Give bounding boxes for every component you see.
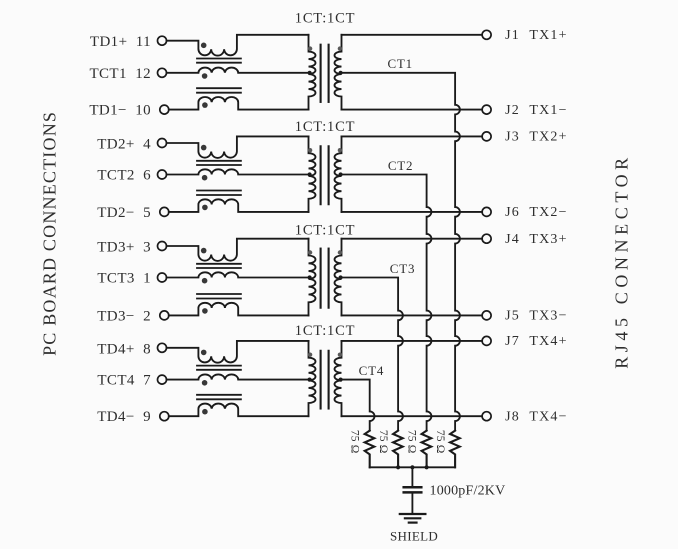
svg-text:RJ45 CONNECTOR: RJ45 CONNECTOR bbox=[612, 153, 632, 369]
svg-text:J6 TX2−: J6 TX2− bbox=[505, 205, 568, 220]
svg-text:75 Ω: 75 Ω bbox=[405, 430, 417, 454]
svg-text:CT4: CT4 bbox=[359, 363, 385, 378]
svg-text:TD3+ 3: TD3+ 3 bbox=[97, 240, 151, 256]
svg-text:75 Ω: 75 Ω bbox=[377, 430, 389, 454]
svg-text:TCT4 7: TCT4 7 bbox=[97, 373, 151, 389]
svg-text:J1 TX1+: J1 TX1+ bbox=[505, 28, 568, 43]
svg-text:1000pF/2KV: 1000pF/2KV bbox=[430, 484, 506, 499]
svg-text:1CT:1CT: 1CT:1CT bbox=[295, 119, 355, 135]
svg-text:1CT:1CT: 1CT:1CT bbox=[295, 223, 355, 239]
svg-text:CT2: CT2 bbox=[388, 158, 414, 173]
svg-text:TD1+ 11: TD1+ 11 bbox=[90, 34, 151, 50]
svg-text:J5 TX3−: J5 TX3− bbox=[505, 309, 568, 324]
svg-text:J3 TX2+: J3 TX2+ bbox=[505, 130, 568, 145]
svg-text:TD3− 2: TD3− 2 bbox=[97, 308, 151, 324]
svg-text:J2 TX1−: J2 TX1− bbox=[505, 103, 568, 118]
svg-text:J7 TX4+: J7 TX4+ bbox=[505, 334, 568, 349]
svg-text:PC BOARD CONNECTIONS: PC BOARD CONNECTIONS bbox=[40, 111, 60, 356]
svg-text:75 Ω: 75 Ω bbox=[434, 430, 446, 454]
svg-text:TCT2 6: TCT2 6 bbox=[97, 168, 151, 184]
svg-text:TD4− 9: TD4− 9 bbox=[97, 409, 151, 425]
svg-text:TD2− 5: TD2− 5 bbox=[97, 205, 151, 221]
svg-text:TD4+ 8: TD4+ 8 bbox=[97, 341, 151, 357]
svg-text:CT3: CT3 bbox=[390, 261, 416, 276]
svg-text:1CT:1CT: 1CT:1CT bbox=[295, 323, 355, 339]
svg-text:TCT1 12: TCT1 12 bbox=[89, 66, 151, 82]
svg-text:1CT:1CT: 1CT:1CT bbox=[295, 10, 355, 26]
svg-text:SHIELD: SHIELD bbox=[390, 529, 438, 544]
svg-text:TD1− 10: TD1− 10 bbox=[89, 103, 151, 119]
svg-text:J8 TX4−: J8 TX4− bbox=[505, 410, 568, 425]
svg-text:TD2+ 4: TD2+ 4 bbox=[97, 137, 151, 153]
svg-text:75 Ω: 75 Ω bbox=[348, 430, 360, 454]
svg-text:TCT3 1: TCT3 1 bbox=[97, 271, 151, 287]
svg-text:CT1: CT1 bbox=[387, 56, 413, 71]
svg-text:J4 TX3+: J4 TX3+ bbox=[505, 232, 568, 247]
